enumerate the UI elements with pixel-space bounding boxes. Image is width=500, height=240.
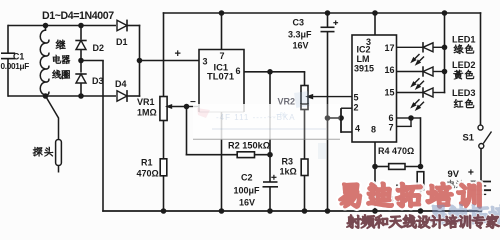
capacitor C3 <box>288 13 338 51</box>
node D2/D3 junction <box>78 58 84 64</box>
IC U2 LM3915 <box>352 35 397 142</box>
LED LED2 (yellow) <box>409 66 433 91</box>
node pin8 ground <box>372 208 378 214</box>
wire output feedback column <box>269 72 271 155</box>
node C3 ground <box>325 208 331 214</box>
svg-text:4: 4 <box>355 124 360 134</box>
node tie junction <box>338 115 344 121</box>
wire battery to ground rail <box>480 194 482 211</box>
resistor R5 <box>389 172 424 205</box>
wire IC2 pin8 column <box>374 142 376 211</box>
watermark blue fragment row <box>430 205 500 224</box>
label 探头 <box>33 147 53 157</box>
svg-text:C2: C2 <box>241 173 253 183</box>
svg-text:6: 6 <box>236 66 241 76</box>
resistor R2 <box>228 141 271 158</box>
svg-text:LM: LM <box>357 54 370 64</box>
svg-text:C1: C1 <box>13 52 24 62</box>
node IC2 pin3 rail <box>372 10 378 16</box>
wire IC2 pin3 to rail <box>374 13 376 35</box>
node rectifier output <box>137 58 143 64</box>
svg-text:LED1: LED1 <box>452 35 476 45</box>
resistor R1 <box>137 158 167 179</box>
resistor R4 <box>375 146 421 169</box>
svg-text:R3: R3 <box>282 157 294 167</box>
LED LED1 (green) <box>409 42 433 67</box>
node LED2 bus <box>442 69 448 75</box>
svg-text:R4 470Ω: R4 470Ω <box>378 146 414 156</box>
node LED bus rail <box>442 10 448 16</box>
wire wiper down to R2 <box>186 107 238 156</box>
node R5 ground <box>418 208 424 214</box>
node R4 left <box>372 164 378 170</box>
svg-text:C3: C3 <box>293 18 305 28</box>
node LED1 bus <box>442 45 448 51</box>
wire rail to VR1 <box>163 12 165 96</box>
svg-text:TL071: TL071 <box>207 71 234 82</box>
wire D4 cathode up to junction <box>127 61 140 97</box>
svg-text:VR2: VR2 <box>278 97 296 107</box>
svg-text:1kΩ: 1kΩ <box>280 167 297 177</box>
wire R5 to ground <box>420 190 422 211</box>
node R1 ground <box>161 208 167 214</box>
svg-text:100μF: 100μF <box>234 186 261 196</box>
svg-text:R2 150kΩ: R2 150kΩ <box>228 141 270 151</box>
svg-text:15: 15 <box>385 88 395 98</box>
label LED1 绿色 <box>452 35 476 54</box>
inductor relay coil (继电器线圈) <box>40 26 49 97</box>
op-amp IC1 TL071 <box>175 48 245 112</box>
label 电池 <box>447 180 464 188</box>
node IC1 pin4 ground <box>219 208 225 214</box>
wire pin17 to LED1 <box>397 46 424 48</box>
diode D2 <box>75 26 104 61</box>
wire VR2 to R3 <box>304 110 306 160</box>
wire C3 to ground column <box>327 32 329 211</box>
wire IC1 pin4 to ground <box>221 112 223 211</box>
wire IC2 pins 2,4 tie <box>328 108 353 133</box>
diode D4 <box>115 79 127 102</box>
svg-text:16V: 16V <box>293 41 309 51</box>
svg-text:3: 3 <box>203 57 208 67</box>
resistor R3 <box>280 157 309 177</box>
capacitor C2 <box>234 155 279 208</box>
node pin6/7 <box>408 115 414 121</box>
watermark translucent box <box>193 104 340 140</box>
wire rectifier output to IC1 pin3 <box>140 60 200 62</box>
node C3 rail <box>325 10 331 16</box>
wire rectifier negative branch <box>81 61 104 212</box>
wire IC1 pin7 to rail <box>221 13 223 50</box>
node D3 bottom <box>78 93 84 99</box>
svg-text:2: 2 <box>354 103 359 113</box>
wire LED1 to bus <box>433 46 445 48</box>
svg-text:R1: R1 <box>141 158 153 168</box>
svg-text:8: 8 <box>371 125 376 135</box>
diode D1 <box>116 20 128 47</box>
svg-text:9V: 9V <box>448 168 460 179</box>
switch S1 <box>463 125 492 148</box>
node IC1 output <box>267 69 273 75</box>
wire probe lead <box>46 96 59 140</box>
svg-text:470Ω: 470Ω <box>137 169 159 179</box>
svg-text:17: 17 <box>385 43 395 53</box>
wire pins 6,7 tie <box>397 117 412 126</box>
wire IC1 pin6 output <box>244 71 271 73</box>
node pins2-4 tie <box>325 115 331 121</box>
watermark red line2 over <box>347 215 500 229</box>
wire AC loop bottom <box>8 95 116 97</box>
wire C2 to ground <box>269 187 271 211</box>
svg-text:S1: S1 <box>463 132 474 143</box>
battery 9V <box>448 168 492 194</box>
node R4 right <box>418 164 424 170</box>
wire top-left AC loop top rail <box>8 25 116 27</box>
capacitor C1 <box>1 25 30 97</box>
wire VR2 wiper to IC2 pin5 <box>305 94 352 100</box>
svg-text:6: 6 <box>389 113 394 123</box>
wire S1 to battery <box>480 149 482 182</box>
svg-text:1MΩ: 1MΩ <box>137 108 157 118</box>
svg-text:16V: 16V <box>239 198 255 208</box>
potentiometer VR2 <box>301 86 308 110</box>
svg-text:+: + <box>175 48 181 60</box>
wire R3 to ground <box>304 176 306 212</box>
wire D1 cathode to junction column <box>127 25 140 61</box>
node R3 ground <box>302 208 308 214</box>
label LED2 黄色 <box>452 60 476 79</box>
svg-text:..~%: ..~% <box>272 112 286 119</box>
svg-text:D2: D2 <box>93 43 105 53</box>
svg-text:3: 3 <box>366 37 371 47</box>
svg-text:LED3: LED3 <box>452 88 476 98</box>
node D2 top <box>78 23 84 29</box>
svg-text:D3: D3 <box>92 76 104 86</box>
label VR2 <box>278 97 296 107</box>
label LED3 红色 <box>452 88 476 108</box>
redraw washed elements over watermark <box>301 97 352 140</box>
svg-text:16: 16 <box>385 65 395 75</box>
svg-text:3915: 3915 <box>354 64 374 74</box>
node coil bottom <box>43 93 49 99</box>
wire wiper to IC1 pin2 <box>187 106 200 108</box>
svg-text:5: 5 <box>354 93 359 103</box>
watermark faint contents <box>197 91 326 159</box>
wire output to VR2 top <box>270 72 305 86</box>
node coil top <box>43 23 49 29</box>
label 继电器线圈 <box>52 40 70 79</box>
node C2 ground <box>267 208 273 214</box>
svg-text:7: 7 <box>220 51 225 61</box>
wire LED2 to bus <box>433 71 445 73</box>
wire R1 to ground rail <box>163 176 165 211</box>
wire pin6/7 down to R4/R5 <box>411 117 421 167</box>
node VR1 wiper <box>184 104 190 110</box>
node R2/C2 junction <box>267 152 273 158</box>
wire ground rail <box>102 210 482 212</box>
wire LED3 to bus <box>433 13 445 93</box>
svg-text:D1~D4=1N4007: D1~D4=1N4007 <box>42 10 114 22</box>
wire rail down to S1 <box>480 12 482 125</box>
potentiometer VR1 <box>137 97 187 121</box>
watermark big red 易迪拓培训 <box>340 183 480 207</box>
node IC1 pin7 rail <box>219 10 225 16</box>
svg-text:3.3μF: 3.3μF <box>288 30 312 40</box>
svg-text:7: 7 <box>389 123 394 133</box>
wire +9V top rail <box>163 12 482 14</box>
wire VR1 to R1 <box>163 121 165 159</box>
LED LED3 (red) <box>409 87 433 112</box>
svg-text:0.001μF: 0.001μF <box>1 62 30 71</box>
probe body (探头) <box>56 140 62 173</box>
svg-text:D4: D4 <box>115 79 127 89</box>
svg-text:VR1: VR1 <box>137 97 155 107</box>
svg-text:LED2: LED2 <box>452 60 476 70</box>
wire pin16 to LED2 <box>397 71 424 73</box>
diode D3 <box>75 61 103 97</box>
svg-text:D1: D1 <box>116 37 128 47</box>
wire pin15 to LED3 <box>397 92 424 94</box>
